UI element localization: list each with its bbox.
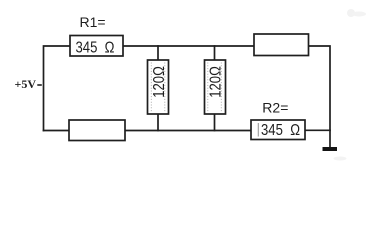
resistor R1 body <box>70 36 123 57</box>
wire: left vertical rail from bottom rail up to top rail <box>44 46 71 131</box>
wire: stub from 120ohm resistor #1 down to bottom rail <box>157 114 159 131</box>
wire: bottom rail left segment into bottom-left resistor <box>44 130 70 132</box>
wire: stub from 120ohm resistor #2 down to bottom rail <box>214 114 216 131</box>
resistor (unlabeled, top right) body <box>254 34 309 56</box>
svg-text:R1=: R1= <box>80 14 106 30</box>
svg-text:Ω: Ω <box>290 122 300 139</box>
resistor 120ohm #2 body <box>205 60 226 114</box>
svg-text:345: 345 <box>261 122 283 139</box>
wire: bottom rail between bottom-left resistor and R2 <box>125 130 251 132</box>
svg-text:R2=: R2= <box>262 100 288 116</box>
text-frame dashed border inside 120ohm resistor #1 <box>151 63 165 112</box>
resistor (unlabeled, bottom left) body <box>69 120 125 141</box>
ground symbol bar <box>323 147 338 151</box>
wire: from top-right resistor to right vertical rail down to ground <box>309 46 331 147</box>
wire: stub from top rail down to 120ohm resistor #1 <box>157 46 159 60</box>
wire: top rail between R1 and unlabeled top-right resistor <box>123 45 254 47</box>
resistor 120ohm #1 body <box>148 60 169 114</box>
text cursor caret inside R2 box <box>257 123 259 137</box>
svg-text:+5V: +5V <box>15 77 37 91</box>
wire: stub from top rail down to 120ohm resistor #2 <box>214 46 216 60</box>
resistor R2 body <box>251 120 305 140</box>
svg-text:345: 345 <box>76 39 98 56</box>
wire: bottom rail from R2 to right vertical rail <box>305 129 330 131</box>
svg-text:120Ω: 120Ω <box>207 66 224 98</box>
svg-text:Ω: Ω <box>105 39 115 56</box>
tick dash between +5V label and left rail <box>37 84 42 86</box>
svg-text:120Ω: 120Ω <box>151 66 168 98</box>
text-frame dashed border inside 120ohm resistor #2 <box>208 63 222 112</box>
